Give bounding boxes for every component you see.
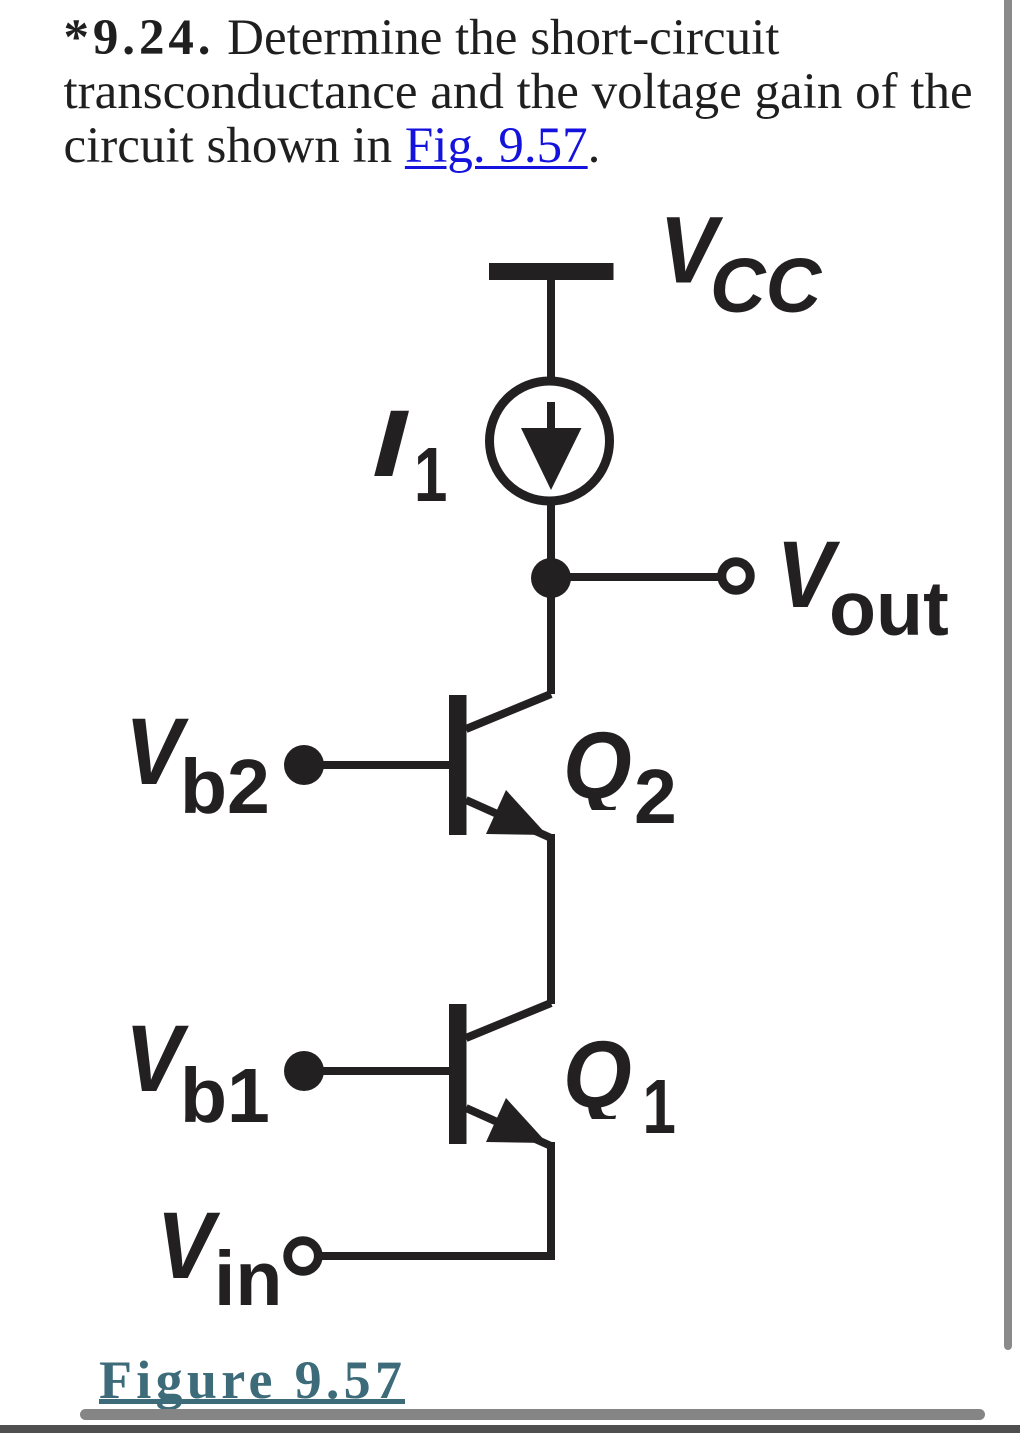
svg-text:2: 2 bbox=[634, 754, 677, 840]
transistor Q2 collector diagonal bbox=[466, 694, 551, 729]
Vin open terminal circle bbox=[288, 1241, 319, 1272]
node Vb1 terminal dot bbox=[284, 1051, 324, 1091]
svg-text:I: I bbox=[372, 390, 409, 497]
transistor Q1 collector diagonal bbox=[466, 1003, 551, 1038]
bottom dark bar bbox=[0, 1425, 1020, 1433]
transistor Q2 emitter arrowhead bbox=[486, 790, 547, 835]
svg-text:out: out bbox=[829, 566, 949, 652]
problem statement paragraph bbox=[64, 11, 973, 173]
node: output node junction dot bbox=[531, 558, 571, 598]
current source I1 bbox=[490, 381, 610, 501]
wire output node down to Q2 collector bbox=[547, 578, 555, 694]
svg-text:in: in bbox=[214, 1236, 282, 1322]
svg-text:1: 1 bbox=[643, 1063, 676, 1150]
Vout open terminal circle bbox=[722, 562, 751, 591]
caption underline bbox=[99, 1399, 405, 1404]
wire Vb1 to Q1 base bbox=[304, 1067, 449, 1075]
wire Q2 emitter to Q1 collector bbox=[547, 834, 555, 1004]
figure caption link bbox=[99, 1349, 406, 1411]
transistor Q1 emitter arrowhead bbox=[486, 1098, 547, 1143]
Vcc supply rail bbox=[489, 263, 614, 280]
vertical scrollbar thumb bbox=[1004, 0, 1013, 1350]
wire output node to Vout terminal bbox=[551, 573, 719, 581]
svg-text:b2: b2 bbox=[180, 744, 270, 830]
transistor Q1 emitter diagonal bbox=[466, 1108, 551, 1146]
node Vb2 terminal dot bbox=[284, 745, 324, 785]
wire Q1 emitter to Vin terminal bbox=[318, 1142, 551, 1256]
svg-text:b1: b1 bbox=[180, 1053, 270, 1139]
transistor Q2 emitter diagonal bbox=[466, 800, 551, 838]
transistor Q1 base bar bbox=[449, 1004, 467, 1144]
label Q1 bbox=[563, 1022, 632, 1128]
svg-text:1: 1 bbox=[414, 431, 447, 518]
label Q2 bbox=[563, 713, 632, 819]
svg-text:Q: Q bbox=[563, 713, 632, 819]
svg-text:Q: Q bbox=[563, 1022, 632, 1128]
horizontal scrollbar thumb bbox=[80, 1409, 985, 1420]
svg-text:V: V bbox=[157, 1193, 221, 1299]
wire current source to output node bbox=[547, 505, 555, 578]
transistor Q2 base bar bbox=[449, 695, 467, 835]
wire Vb2 to Q2 base bbox=[304, 761, 449, 769]
svg-text:CC: CC bbox=[710, 243, 823, 329]
wire Vcc rail to current source bbox=[547, 280, 555, 378]
